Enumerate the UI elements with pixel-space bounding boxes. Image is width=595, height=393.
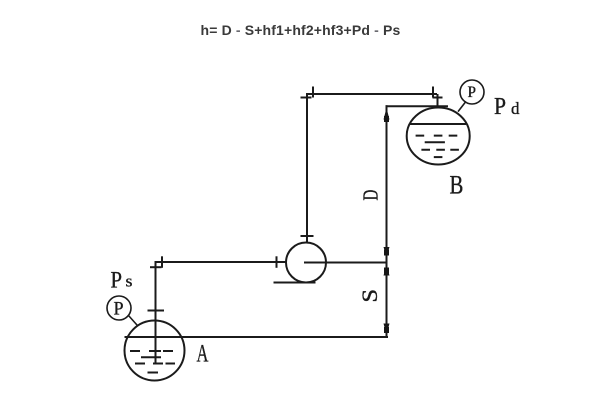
svg-text:S: S — [358, 289, 382, 303]
svg-text:P: P — [494, 93, 506, 119]
svg-text:s: s — [126, 271, 133, 291]
svg-text:P: P — [114, 298, 124, 320]
svg-text:P: P — [111, 268, 123, 293]
svg-text:D: D — [359, 190, 382, 201]
svg-text:P: P — [468, 84, 477, 101]
svg-text:B: B — [450, 171, 464, 200]
svg-text:d: d — [511, 99, 520, 118]
svg-text:A: A — [197, 339, 209, 367]
svg-text:h= D - S+hf1+hf2+hf3+Pd - Ps: h= D - S+hf1+hf2+hf3+Pd - Ps — [201, 22, 401, 38]
